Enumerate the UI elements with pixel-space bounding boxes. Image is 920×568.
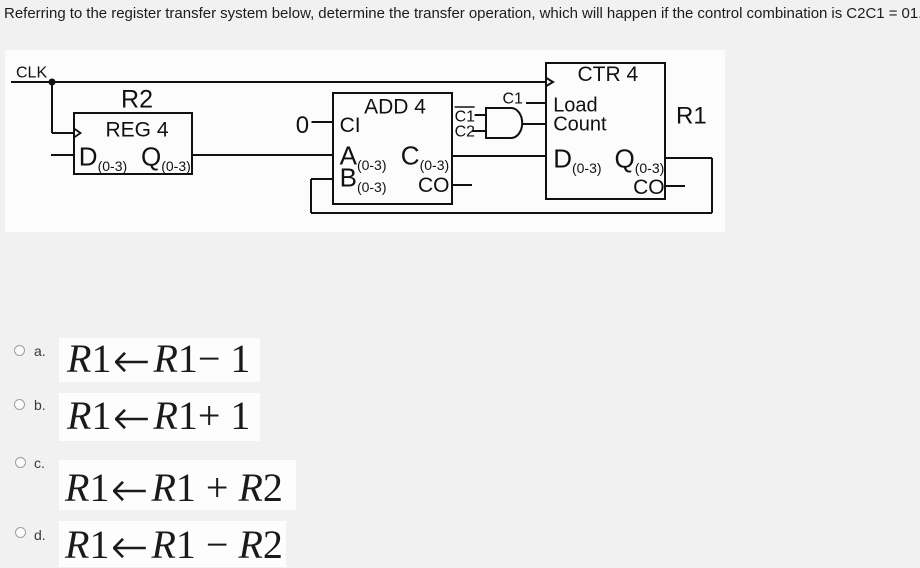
svg-text:ADD 4: ADD 4 — [364, 96, 426, 119]
svg-text:CTR 4: CTR 4 — [577, 63, 638, 86]
svg-text:Q(0-3): Q(0-3) — [141, 142, 191, 175]
svg-text:C1: C1 — [503, 91, 524, 108]
svg-text:Count: Count — [553, 113, 607, 135]
svg-text:Q(0-3): Q(0-3) — [615, 144, 665, 177]
svg-text:D(0-3): D(0-3) — [553, 144, 601, 177]
svg-text:0: 0 — [296, 112, 309, 139]
svg-text:D(0-3): D(0-3) — [79, 142, 127, 175]
svg-text:R1: R1 — [676, 103, 707, 130]
svg-text:REG 4: REG 4 — [105, 119, 168, 142]
svg-text:CO: CO — [418, 174, 450, 197]
svg-text:C(0-3): C(0-3) — [401, 141, 449, 174]
svg-text:R2: R2 — [121, 86, 153, 114]
svg-text:CI: CI — [340, 114, 361, 137]
svg-text:CO: CO — [633, 176, 665, 199]
svg-text:CLK: CLK — [16, 65, 47, 82]
